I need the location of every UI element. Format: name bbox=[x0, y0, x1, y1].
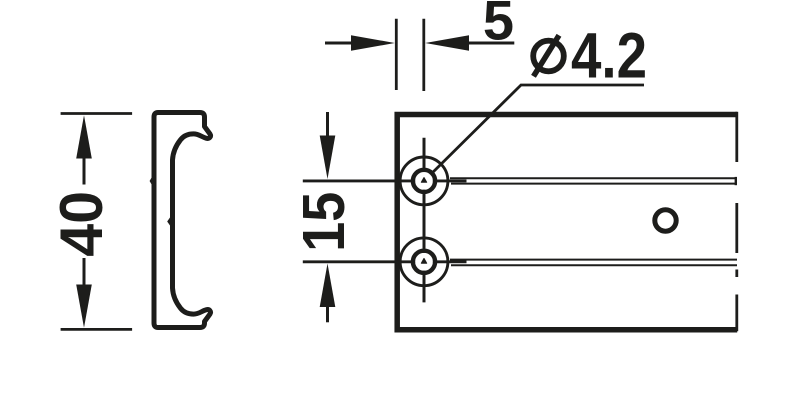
plate front view thick border (top, left, bottom) bbox=[397, 115, 737, 330]
hole 1 centerline horizontal / dim 15 extension top bbox=[303, 179, 467, 182]
hole 1 bore bbox=[415, 172, 433, 190]
hole 1 center dot bbox=[421, 178, 426, 183]
plate right broken edge segment 4 bbox=[735, 295, 738, 332]
slot 1 bottom line bbox=[451, 183, 736, 185]
slot 2 top line bbox=[450, 259, 737, 261]
dim 40 arrow up bbox=[76, 115, 92, 158]
slot 1 top line bbox=[450, 177, 736, 179]
profile inner wall nub bbox=[167, 216, 171, 227]
profile left wall nub bbox=[150, 176, 153, 186]
hole 2 bore bbox=[415, 253, 433, 271]
hole 2 ring bbox=[413, 251, 435, 273]
dim 15 arrow top bbox=[326, 112, 329, 136]
hole 2 centerline horizontal / dim 15 extension bottom bbox=[303, 260, 467, 263]
svg-text:4.2: 4.2 bbox=[571, 21, 647, 92]
profile side view outline bbox=[154, 113, 211, 328]
plate right broken edge segment 3 bbox=[735, 270, 738, 278]
svg-text:40: 40 bbox=[47, 191, 115, 257]
dim 40 arrow down bbox=[76, 285, 92, 328]
diameter symbol circle bbox=[533, 41, 564, 72]
dim 40 extension line bottom bbox=[61, 328, 133, 331]
plate right broken edge segment 2 bbox=[735, 203, 738, 253]
slot 2 bottom line bbox=[451, 264, 737, 266]
svg-text:5: 5 bbox=[483, 0, 514, 51]
hole 1 centerline vertical bbox=[423, 138, 426, 303]
dim 5 extension line right bbox=[422, 19, 425, 91]
plate right broken edge segment 1 bbox=[735, 112, 738, 162]
hole 2 center dot bbox=[421, 258, 426, 263]
diameter symbol slash bbox=[534, 35, 560, 76]
hole 1 ring bbox=[413, 170, 435, 192]
hole 2 outer circle bbox=[400, 238, 448, 286]
slot 1 end cap bbox=[735, 177, 737, 185]
dim 15 arrow bottom bbox=[320, 264, 336, 308]
screw hole small circle bbox=[655, 210, 676, 231]
dim 5 extension line left bbox=[395, 19, 398, 90]
dim 5 arrow right bbox=[425, 35, 469, 51]
dim 5 arrow left bbox=[325, 42, 351, 45]
hole 1 outer circle bbox=[400, 157, 448, 205]
dim 40 extension line top bbox=[61, 112, 133, 115]
svg-text:15: 15 bbox=[291, 192, 357, 252]
leader line for hole diameter bbox=[424, 85, 644, 181]
